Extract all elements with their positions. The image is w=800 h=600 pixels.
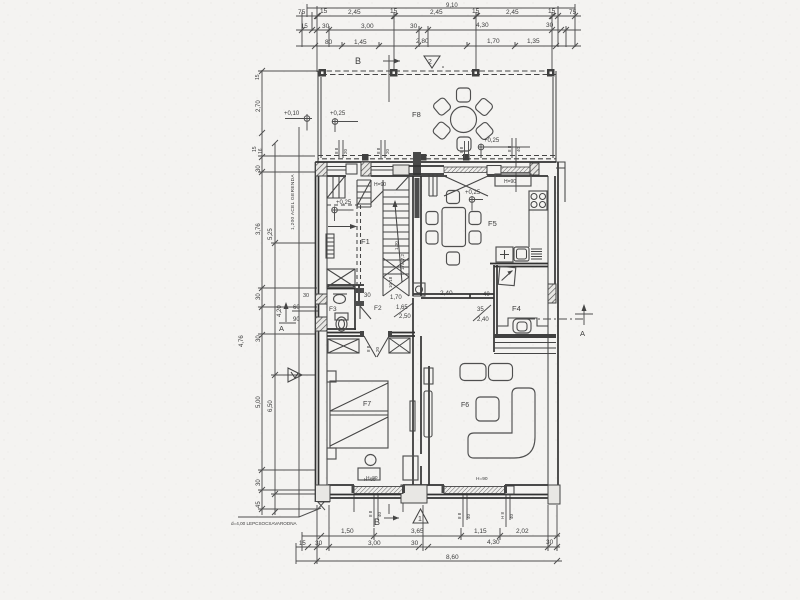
svg-text:15: 15 xyxy=(299,541,306,547)
sliding door glazing band xyxy=(444,167,487,173)
terrace bottom dashed separation xyxy=(318,155,556,157)
svg-text:2,50: 2,50 xyxy=(399,314,411,320)
porch steps right xyxy=(494,343,556,354)
section mark A right xyxy=(583,307,585,325)
right wall hatch pier middle xyxy=(548,284,556,303)
F2/F7 wall with door xyxy=(363,298,415,336)
bottom exterior wall xyxy=(316,485,549,502)
fridge shelf lines xyxy=(531,249,542,259)
svg-text:5,25: 5,25 xyxy=(268,228,274,240)
stair bottom cross xyxy=(383,258,409,296)
dining chair right1 xyxy=(469,212,481,225)
svg-text:1,200 ACEL GERENDA: 1,200 ACEL GERENDA xyxy=(290,174,296,230)
dim tick marks line3 xyxy=(312,43,578,49)
svg-text:4,20: 4,20 xyxy=(277,305,283,317)
dresser F7 bottom xyxy=(403,456,418,480)
svg-text:90: 90 xyxy=(293,317,300,323)
MARKS xyxy=(329,219,521,409)
right exterior wall xyxy=(555,162,558,502)
entry steps F1 xyxy=(327,176,345,198)
radiator F6 left xyxy=(424,368,433,384)
F7 top wall xyxy=(327,335,415,337)
svg-text:45: 45 xyxy=(256,501,262,508)
window B sill xyxy=(371,167,393,171)
extension line terrace-left xyxy=(298,127,300,517)
svg-text:30: 30 xyxy=(411,540,419,547)
column symbol below stair wall xyxy=(413,283,425,296)
svg-text:30: 30 xyxy=(303,293,309,299)
svg-text:2,40: 2,40 xyxy=(477,317,489,323)
leader to note xyxy=(238,508,321,517)
svg-text:60: 60 xyxy=(293,305,300,311)
door swing F1 terrace xyxy=(396,176,409,190)
svg-text:16: 16 xyxy=(258,148,264,154)
F3 toilet xyxy=(335,313,348,320)
radiator F1 xyxy=(326,234,334,258)
svg-text:8 8: 8 8 xyxy=(366,345,371,352)
desk chair F7 xyxy=(365,455,376,466)
svg-text:3,65: 3,65 xyxy=(411,528,424,535)
extension horizontals from building xyxy=(258,71,318,509)
counter edge xyxy=(529,210,547,247)
svg-text:40: 40 xyxy=(466,513,471,519)
svg-text:F4: F4 xyxy=(512,304,521,313)
svg-text:30: 30 xyxy=(410,23,418,30)
stair wall F1/F5 xyxy=(413,176,421,296)
svg-text:2,45: 2,45 xyxy=(430,9,443,16)
FURNITURE xyxy=(327,191,535,484)
svg-text:1,35: 1,35 xyxy=(527,38,540,45)
chair bottom xyxy=(457,137,471,151)
flight connector xyxy=(371,191,383,203)
terrace right edge xyxy=(553,71,556,162)
posts bottom edge xyxy=(362,154,470,161)
dim chain line 2 xyxy=(296,29,581,31)
svg-text:30: 30 xyxy=(256,293,262,300)
svg-text:F5: F5 xyxy=(488,219,497,228)
detail triangle 1 xyxy=(413,509,428,523)
chair lower-right xyxy=(475,121,495,141)
dim extension verticals xyxy=(302,4,575,72)
svg-text:2,02: 2,02 xyxy=(516,528,529,535)
roller box window F6 xyxy=(505,486,514,494)
svg-text:1,50: 1,50 xyxy=(341,528,354,535)
wardrobe F7 right xyxy=(389,338,410,353)
desk F7 xyxy=(358,468,380,480)
window F6 bottom xyxy=(444,487,505,494)
dim chain line 2 bottom xyxy=(296,546,560,548)
hatched pier top wall xyxy=(361,162,371,176)
svg-text:30: 30 xyxy=(256,479,262,486)
stair enclosure xyxy=(383,176,409,296)
dining chair right2 xyxy=(469,231,481,244)
wardrobe F1 xyxy=(327,269,355,287)
svg-text:30: 30 xyxy=(256,165,262,172)
svg-text:F8: F8 xyxy=(412,110,421,119)
middle wall band xyxy=(413,294,494,298)
svg-text:8 8: 8 8 xyxy=(459,146,464,153)
dim chain A vertical xyxy=(261,70,263,515)
wardrobe F7 left xyxy=(328,339,359,353)
radiator F7 wall xyxy=(410,401,415,431)
svg-text:2,70: 2,70 xyxy=(256,100,262,112)
right wall pillar stub top xyxy=(556,162,565,202)
TERRACE xyxy=(284,69,556,192)
svg-text:2,45: 2,45 xyxy=(506,9,519,16)
svg-text:+0,25: +0,25 xyxy=(465,190,481,196)
detail triangle 2 xyxy=(424,56,440,68)
main flight treads xyxy=(383,190,409,274)
solid segment xyxy=(393,165,409,175)
dim chain line 3 bottom xyxy=(296,560,562,562)
dashed stair headroom line F1 xyxy=(357,205,361,294)
kitchen window band xyxy=(501,167,530,173)
svg-text:H=90: H=90 xyxy=(504,179,516,185)
svg-text:B: B xyxy=(355,56,361,66)
F3 sink xyxy=(334,295,346,304)
svg-text:4,30: 4,30 xyxy=(487,539,500,546)
svg-text:17x17,2: 17x17,2 xyxy=(400,253,405,270)
F3 wc room walls xyxy=(327,285,364,333)
small rotated dims above wall openings xyxy=(339,138,516,192)
dim extension verticals bottom xyxy=(296,505,557,564)
F2 door swing to F7 xyxy=(364,336,389,357)
svg-text:9,10: 9,10 xyxy=(446,3,458,9)
dining chair top xyxy=(447,191,460,204)
window F7 bottom xyxy=(354,487,403,494)
bottom wall mid pillar xyxy=(401,485,427,503)
svg-text:30: 30 xyxy=(315,540,323,547)
sofa F6 L-shape xyxy=(468,388,535,458)
svg-text:40: 40 xyxy=(483,292,490,298)
chair upper-right xyxy=(474,97,494,117)
walk arrow F1 xyxy=(328,226,354,228)
revision triangle left xyxy=(288,368,302,382)
svg-text:4,30: 4,30 xyxy=(476,22,489,29)
terrace left edge xyxy=(318,71,321,162)
F4 top wall xyxy=(490,264,548,267)
stove xyxy=(529,191,547,210)
svg-text:30: 30 xyxy=(322,23,330,30)
sink xyxy=(514,247,529,261)
svg-text:F7: F7 xyxy=(363,401,371,408)
svg-text:20: 20 xyxy=(343,148,348,154)
chair upper-left xyxy=(432,97,452,117)
glazing X mark xyxy=(444,176,488,196)
dining table xyxy=(442,208,466,247)
F4 bottom thick wall xyxy=(494,334,556,338)
TOPDIMS xyxy=(296,3,581,102)
svg-text:1,15: 1,15 xyxy=(474,528,487,535)
svg-text:+0,25: +0,25 xyxy=(484,138,500,144)
F3 door jambs xyxy=(355,288,364,293)
BOTTOMDIMS xyxy=(296,495,562,564)
dining chair left2 xyxy=(426,231,438,244)
svg-text:1,70: 1,70 xyxy=(390,295,402,301)
window A sill F1 xyxy=(327,167,346,171)
WALLS xyxy=(316,152,566,504)
F7/F6 wall xyxy=(413,336,429,485)
sliding door pocket leaf xyxy=(429,174,437,196)
left wall hatch piers xyxy=(316,162,328,176)
svg-text:20: 20 xyxy=(375,346,380,352)
left exterior wall xyxy=(316,162,319,502)
dim tick marks line2 xyxy=(299,27,569,33)
dishwasher with + xyxy=(496,247,513,262)
svg-text:A: A xyxy=(580,329,585,338)
svg-text:2,40: 2,40 xyxy=(440,290,453,297)
dim chain line 1 bottom xyxy=(302,535,560,537)
svg-text:1,00: 1,00 xyxy=(394,241,399,250)
top exterior wall line xyxy=(316,162,557,176)
svg-text:3,00: 3,00 xyxy=(361,23,374,30)
svg-text:8 8: 8 8 xyxy=(368,510,373,517)
svg-text:2,45: 2,45 xyxy=(348,9,361,16)
svg-text:40: 40 xyxy=(516,146,521,152)
chain A ticks xyxy=(259,68,265,512)
svg-text:10 18: 10 18 xyxy=(388,276,393,288)
svg-text:H=90: H=90 xyxy=(374,182,386,188)
F3 door swing xyxy=(360,306,371,319)
svg-text:8 8: 8 8 xyxy=(457,512,462,519)
chair lower-left xyxy=(432,121,452,141)
kitchen counter under window xyxy=(495,174,531,186)
svg-text:1,45: 1,45 xyxy=(354,39,367,46)
section mark A left xyxy=(285,306,287,322)
svg-text:5,00: 5,00 xyxy=(256,396,262,408)
svg-text:8 8: 8 8 xyxy=(376,147,381,154)
hatched pier kitchen xyxy=(530,163,539,175)
svg-text:A: A xyxy=(279,324,284,333)
svg-text:d=4,00 LEPCSOCSAVARODNA: d=4,00 LEPCSOCSAVARODNA xyxy=(231,521,298,526)
section A-A dash line right xyxy=(527,318,583,320)
svg-text:40: 40 xyxy=(509,513,514,519)
nightstand top xyxy=(327,371,336,382)
dim chain line 1 xyxy=(296,15,581,17)
svg-text:1,70: 1,70 xyxy=(487,38,500,45)
dim overall 9,10 line xyxy=(307,7,575,9)
roller box window A xyxy=(346,164,357,174)
bottom wall left corner xyxy=(316,485,331,502)
svg-text:+0,25: +0,25 xyxy=(336,200,352,206)
armchair F6 a xyxy=(460,364,486,381)
round table xyxy=(451,107,477,133)
svg-text:H=90: H=90 xyxy=(364,477,376,483)
FIXTURES xyxy=(333,174,593,338)
svg-text:1: 1 xyxy=(418,516,422,523)
LEFTDIMS xyxy=(231,68,325,526)
svg-text:B: B xyxy=(374,517,380,527)
armchair F6 b xyxy=(489,364,513,381)
svg-text:H 8: H 8 xyxy=(500,512,505,520)
svg-text:H=90: H=90 xyxy=(476,476,488,482)
entry flight diagonal xyxy=(357,180,371,206)
roller box kitchen xyxy=(487,166,501,175)
svg-text:F3: F3 xyxy=(329,306,337,313)
bottom wall right corner xyxy=(548,485,560,504)
chair top xyxy=(457,88,471,102)
F2 door jamb blocks xyxy=(360,331,364,337)
cross pillar F1/F5 xyxy=(413,152,421,176)
terrace top dashed edge xyxy=(318,70,556,72)
svg-text:F6: F6 xyxy=(461,402,469,409)
walk line with arrow xyxy=(395,204,402,282)
water heater tilted xyxy=(498,266,516,285)
F4 toilet xyxy=(513,319,531,333)
svg-text:+0,25: +0,25 xyxy=(330,111,346,117)
dining chair bottom xyxy=(447,252,460,265)
svg-text:2,80: 2,80 xyxy=(416,38,429,45)
dim chain B vertical xyxy=(274,143,276,515)
svg-text:8 8: 8 8 xyxy=(507,145,512,152)
svg-text:2: 2 xyxy=(428,59,432,66)
svg-text:15: 15 xyxy=(255,74,261,80)
svg-text:F1: F1 xyxy=(361,237,370,246)
svg-text:8 8: 8 8 xyxy=(334,147,339,154)
door pocket F6 left xyxy=(424,391,432,437)
entry flight treads xyxy=(357,180,371,207)
svg-text:3,76: 3,76 xyxy=(256,223,262,235)
window leader lines bottom xyxy=(354,495,510,527)
svg-text:+0,10: +0,10 xyxy=(284,111,300,117)
dim chain line 3 xyxy=(296,45,581,47)
dim tick marks line1 xyxy=(314,13,578,19)
svg-text:30: 30 xyxy=(364,293,371,299)
svg-text:4,76: 4,76 xyxy=(239,335,245,347)
window jamb nubs xyxy=(352,485,508,493)
F4 left wall xyxy=(494,265,497,352)
svg-text:6,50: 6,50 xyxy=(268,400,274,412)
svg-text:15: 15 xyxy=(320,8,328,15)
coffee table F6 xyxy=(476,397,499,421)
svg-text:3,00: 3,00 xyxy=(368,540,381,547)
dining chair left1 xyxy=(426,212,438,225)
STAIRS xyxy=(326,176,483,296)
nightstand bottom xyxy=(327,448,336,459)
svg-text:20: 20 xyxy=(385,148,390,154)
chain B ticks xyxy=(272,140,278,515)
svg-text:F2: F2 xyxy=(374,305,382,312)
svg-text:8,60: 8,60 xyxy=(446,554,459,561)
terrace posts top xyxy=(319,69,555,77)
F4 bottom wall with wc recess xyxy=(497,318,548,326)
bed F7 xyxy=(330,381,388,448)
